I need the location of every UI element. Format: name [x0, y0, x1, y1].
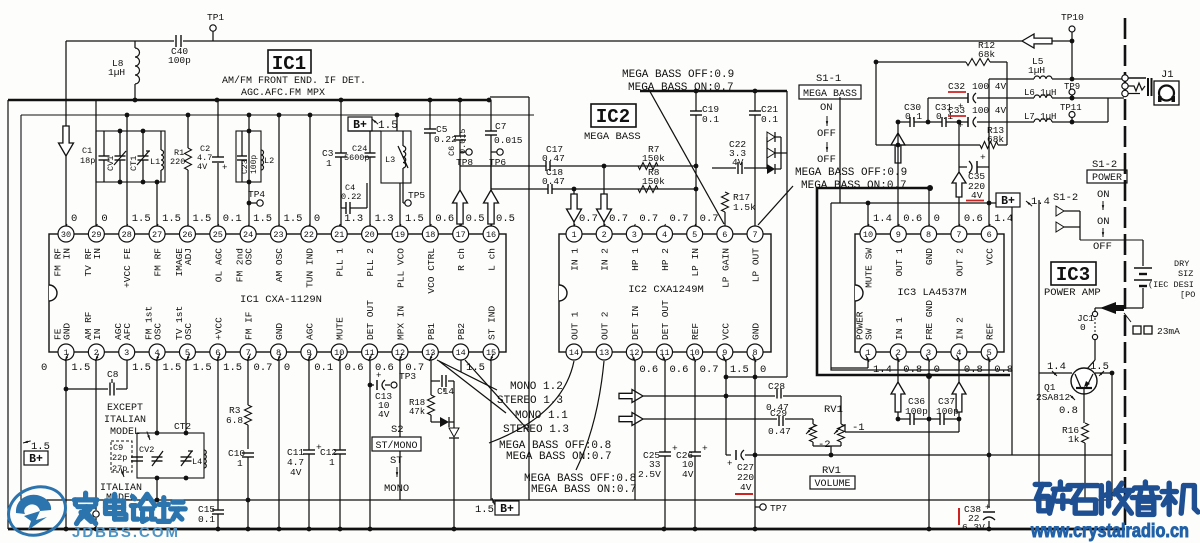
svg-text:IN 1: IN 1 — [894, 317, 905, 340]
svg-text:5: 5 — [692, 230, 697, 240]
svg-text:1.5: 1.5 — [132, 213, 151, 225]
svg-text:0: 0 — [41, 362, 47, 374]
svg-text:30: 30 — [61, 230, 71, 240]
svg-text:23: 23 — [273, 230, 283, 240]
tuned circuit box L3 — [367, 131, 411, 183]
svg-text:28: 28 — [122, 230, 132, 240]
label MEGA BASS OFF 0.8 (first) — [499, 440, 612, 463]
svg-text:AFC: AFC — [122, 323, 133, 340]
svg-text:MUTE: MUTE — [335, 317, 346, 340]
svg-text:25: 25 — [213, 230, 223, 240]
svg-text:6.3V: 6.3V — [962, 522, 985, 533]
svg-text:GND: GND — [751, 323, 762, 340]
wire IC3 pin10 MUTE SW up — [867, 203, 869, 226]
svg-text:TUN IND: TUN IND — [304, 248, 315, 288]
svg-text:B+: B+ — [1001, 195, 1015, 208]
svg-text:68k: 68k — [978, 49, 995, 60]
svg-text:0.8: 0.8 — [903, 364, 922, 376]
wire IC1 pin14 stub — [460, 360, 462, 372]
svg-text:0.47: 0.47 — [542, 176, 565, 187]
wire IC1 pin23 drop — [278, 115, 280, 226]
wire Q1 base feed down — [1038, 373, 1040, 500]
label MONO 1.2 STEREO 1.3 — [497, 381, 563, 407]
svg-text:0: 0 — [934, 364, 940, 376]
svg-text:0.7: 0.7 — [670, 213, 689, 225]
capacitor C35 220 4V — [959, 152, 989, 201]
svg-text:ST IND: ST IND — [487, 305, 498, 340]
svg-text:14: 14 — [456, 348, 466, 358]
svg-text:4V: 4V — [682, 469, 694, 480]
svg-text:20: 20 — [364, 230, 374, 240]
wire IC3 pin1 POWER SW tie — [831, 360, 868, 368]
svg-text:1.5: 1.5 — [284, 213, 303, 225]
svg-text:OL AGC: OL AGC — [213, 248, 224, 283]
capacitor C8 — [66, 360, 127, 396]
svg-text:GND: GND — [62, 323, 73, 340]
svg-text:R ch: R ch — [456, 248, 467, 271]
svg-text:150k: 150k — [642, 176, 665, 187]
svg-text:0: 0 — [101, 213, 107, 225]
svg-text:9: 9 — [896, 230, 901, 240]
svg-text:OFF: OFF — [817, 154, 836, 166]
svg-text:0.1: 0.1 — [314, 362, 333, 374]
svg-text:JDBBS.COM: JDBBS.COM — [72, 524, 180, 541]
resistor R18 47k — [409, 381, 435, 422]
wire IC1 pin12 down — [399, 360, 401, 500]
capacitor C38 22 6.3V — [959, 455, 995, 533]
svg-text:GND: GND — [924, 248, 935, 265]
test point TP9 — [1064, 82, 1080, 100]
svg-text:FM IF: FM IF — [244, 311, 255, 340]
svg-text:MODEL: MODEL — [110, 427, 140, 438]
svg-text:C23: C23 — [241, 159, 250, 174]
jack J1 contacts — [1122, 75, 1128, 97]
op-amp IC3 LA4537M body with pins — [855, 226, 1005, 360]
capacitor C25 33 2.5V — [638, 360, 678, 529]
svg-text:6.8: 6.8 — [226, 415, 243, 426]
label RV1 VOLUME box — [810, 465, 855, 490]
capacitor C18 0.47 — [542, 167, 565, 194]
capacitor C12 1 — [320, 360, 346, 529]
wire emitter to volume line — [1096, 371, 1114, 500]
svg-text:+: + — [702, 443, 708, 454]
svg-text:CT2: CT2 — [174, 421, 191, 432]
label 1.5 with B+ box left — [23, 441, 50, 466]
wire volume output y=455 — [755, 453, 1112, 458]
wire IC1 pin29 drop — [95, 100, 97, 226]
svg-text:1.5: 1.5 — [405, 213, 424, 225]
svg-text:1.4: 1.4 — [873, 364, 892, 376]
svg-text:0.7: 0.7 — [254, 362, 273, 374]
svg-text:MONO 1.1: MONO 1.1 — [515, 410, 568, 422]
jack J1 headphone — [1128, 69, 1179, 105]
svg-text:SW: SW — [864, 328, 875, 340]
capacitor C27 220 4V — [726, 377, 755, 494]
svg-text:TP3: TP3 — [399, 371, 416, 382]
capacitor C23 100p label — [241, 155, 259, 174]
watermark left url JDBBS.COM — [72, 524, 180, 541]
trimmer CT1 label — [129, 156, 139, 171]
wire IC1 pin17 drop — [459, 100, 461, 166]
wire IC1 pin15 down — [491, 360, 495, 505]
svg-text:0: 0 — [314, 213, 320, 225]
svg-text:6: 6 — [722, 230, 727, 240]
capacitor C31 0.1 — [935, 102, 953, 127]
switch S2 ST/MONO — [372, 424, 421, 495]
svg-text:16: 16 — [486, 230, 496, 240]
svg-text:13: 13 — [599, 348, 609, 358]
wire thick ground path IC3 — [817, 188, 1010, 379]
svg-text:REF: REF — [690, 323, 701, 340]
svg-text:7: 7 — [752, 230, 757, 240]
voltage labels above IC3 pins — [866, 213, 1014, 231]
wire IC2 pin5 vertical with C19 — [694, 89, 699, 226]
watermark right url crystalradio — [1030, 521, 1189, 542]
svg-text:+: + — [222, 163, 227, 173]
svg-text:24: 24 — [243, 230, 253, 240]
svg-text:VOLUME: VOLUME — [814, 479, 850, 490]
svg-text:0.8: 0.8 — [994, 364, 1013, 376]
label EXCEPT ITALIAN MODEL — [104, 403, 150, 440]
wire IC1 pin8 down — [278, 360, 280, 529]
varicap CV1 label — [106, 156, 116, 171]
wire x=1108 join — [1107, 98, 1109, 122]
resistor R16 1k — [1062, 423, 1089, 500]
test point TP11 — [1060, 103, 1082, 122]
svg-text:RV1: RV1 — [822, 465, 841, 477]
wire y=377 tie — [724, 360, 755, 379]
capacitor C30 0.1 — [904, 102, 922, 127]
capacitor C13 10 4V — [368, 360, 393, 529]
test point TP6 — [489, 149, 506, 168]
svg-text:4: 4 — [662, 230, 667, 240]
wire C14 net down to diodes — [453, 381, 455, 417]
svg-text:TP5: TP5 — [408, 190, 425, 201]
transistor Q1 2SA812 — [1036, 361, 1109, 423]
svg-text:C6: C6 — [447, 146, 457, 156]
svg-text:MPX IN: MPX IN — [395, 306, 406, 340]
svg-text:1.5: 1.5 — [192, 213, 211, 225]
svg-text:C14: C14 — [437, 386, 454, 397]
wire IC1 pin27 drop — [156, 183, 158, 226]
svg-text:0.1: 0.1 — [761, 114, 778, 125]
svg-text:0.6: 0.6 — [964, 213, 983, 225]
svg-text:IC2 CXA1249M: IC2 CXA1249M — [628, 284, 704, 296]
label MEGA BASS OFF 0.9 top — [622, 69, 734, 94]
capacitor C11 4.7 4V — [287, 360, 322, 529]
svg-text:0.015: 0.015 — [494, 135, 523, 146]
svg-text:DET IN: DET IN — [630, 306, 641, 340]
svg-text:L1: L1 — [150, 157, 160, 167]
jumper JC1 — [1077, 308, 1143, 369]
op-amp IC1 CXA-1129N body with pins — [49, 226, 506, 360]
svg-text:FM RF: FM RF — [153, 248, 164, 277]
capacitor C40 100p — [168, 35, 191, 66]
svg-text:ST: ST — [390, 455, 403, 467]
svg-text:+: + — [376, 371, 381, 381]
svg-text:23mA: 23mA — [1157, 326, 1180, 337]
svg-text:+: + — [980, 152, 986, 163]
wire bottom thick ground border — [8, 527, 1125, 532]
svg-text:C28: C28 — [768, 381, 785, 392]
label MEGA BASS under IC2 — [584, 131, 641, 143]
wire IC1 pin26 drop — [187, 115, 189, 226]
svg-text:0: 0 — [934, 213, 940, 225]
test point TP7 — [755, 503, 787, 514]
svg-text:B+: B+ — [353, 119, 367, 132]
diagonal pointer IC1 pin13 to mono/stereo labels — [437, 360, 528, 430]
svg-text:17: 17 — [456, 230, 466, 240]
svg-text:26: 26 — [182, 230, 192, 240]
capacitor C4 0.22 — [341, 157, 367, 214]
svg-text:VCC: VCC — [720, 323, 731, 340]
svg-text:AM OSC: AM OSC — [274, 248, 285, 283]
svg-text:TP7: TP7 — [770, 503, 787, 514]
svg-text:TP10: TP10 — [1061, 12, 1084, 23]
svg-text:POWER: POWER — [1092, 173, 1122, 184]
svg-text:S1-2: S1-2 — [1053, 192, 1078, 204]
svg-text:27: 27 — [152, 230, 162, 240]
capacitor C33 100 4V — [948, 105, 1007, 131]
wire line y=396 to RV1 — [643, 394, 841, 424]
watermark left logo (JDBBS) — [2, 479, 73, 543]
capacitor C28 0.47 — [766, 381, 789, 413]
wire IC1 pin16 drop — [490, 100, 492, 189]
svg-text:0.7: 0.7 — [579, 213, 598, 225]
svg-text:PLL VCO: PLL VCO — [395, 248, 406, 288]
svg-text:AGC.AFC.FM MPX: AGC.AFC.FM MPX — [241, 88, 325, 99]
test point TP5 — [403, 183, 425, 206]
svg-text:IN: IN — [92, 248, 103, 259]
svg-text:11: 11 — [659, 348, 669, 358]
signal arrow down into IC2 pin1 — [567, 189, 582, 226]
svg-text:1.5: 1.5 — [132, 362, 151, 374]
label box B+ right — [996, 193, 1050, 208]
wire OUT1 audio line y=122 — [896, 120, 1108, 125]
svg-text:C9: C9 — [113, 443, 123, 453]
svg-text:REF: REF — [985, 323, 996, 340]
svg-text:8: 8 — [926, 230, 931, 240]
svg-text:OUT 2: OUT 2 — [954, 248, 965, 277]
svg-text:1.5: 1.5 — [253, 213, 272, 225]
label MEGA BASS OFF 0.8 (second) — [524, 473, 637, 496]
svg-text:C1: C1 — [82, 146, 92, 156]
wire IC3 pin7 OUT2 up — [958, 122, 960, 226]
svg-text:CV1: CV1 — [106, 156, 116, 171]
enclosure box around IC3 — [831, 201, 1012, 455]
wire IC3 pin2 down with arrow — [891, 360, 905, 421]
svg-text:7: 7 — [956, 230, 961, 240]
wire IC1 pin25 drop — [217, 100, 219, 226]
wire C24/L3 top join — [348, 115, 397, 131]
svg-text:CV2: CV2 — [139, 445, 154, 455]
svg-text:HP 2: HP 2 — [660, 248, 671, 271]
capacitor C10 1 — [228, 448, 254, 529]
svg-text:GND: GND — [274, 323, 285, 340]
svg-text:IC3: IC3 — [1056, 264, 1090, 286]
resistor R1 220 — [170, 148, 192, 170]
svg-text:0.7: 0.7 — [700, 213, 719, 225]
wire OUT2 audio line y=98 — [928, 96, 1124, 122]
inductor L6 1uH — [1024, 88, 1056, 98]
wire thick B+ rail y=91 — [640, 89, 787, 94]
wire second bus y=115 — [21, 113, 534, 500]
inductor L2 label — [264, 156, 274, 166]
svg-text:21: 21 — [334, 230, 344, 240]
svg-text:C7: C7 — [495, 121, 506, 132]
wire IC1 pin30 FM RF IN drop — [65, 41, 67, 226]
svg-text:29: 29 — [91, 230, 101, 240]
wire IC2 pin8 ground down — [753, 360, 758, 529]
svg-text:47k: 47k — [409, 407, 425, 417]
svg-text:DRY: DRY — [1174, 259, 1189, 269]
svg-text:0: 0 — [1080, 322, 1086, 333]
svg-text:12: 12 — [629, 348, 639, 358]
label 1.5 B+ box bottom — [475, 501, 519, 516]
svg-text:RV1: RV1 — [824, 404, 843, 416]
resistor R13 68k — [876, 125, 1007, 149]
wire IC1 pin2 down with test point TP2 — [93, 360, 99, 529]
resistor R7 150k — [638, 144, 665, 170]
svg-text:IN 2: IN 2 — [600, 248, 611, 271]
svg-text:ST/MONO: ST/MONO — [375, 440, 417, 452]
label box IC3 — [1051, 262, 1096, 286]
svg-text:0.6: 0.6 — [639, 364, 658, 376]
signal arrow up at IC1 pin16 — [484, 160, 499, 226]
svg-text:0: 0 — [760, 364, 766, 376]
resistor R17 1.5k — [722, 192, 757, 226]
svg-text:1.5: 1.5 — [162, 213, 181, 225]
svg-text:OUT 2: OUT 2 — [600, 311, 611, 340]
label IC1 function — [222, 75, 366, 99]
wire IC3 pin4 down with arrow — [952, 360, 966, 421]
svg-text:SIZ: SIZ — [1178, 269, 1193, 279]
capacitor C6 0.015 — [447, 128, 468, 156]
svg-text:STEREO 1.3: STEREO 1.3 — [497, 395, 563, 407]
capacitor C24 5600p — [344, 131, 376, 183]
diode D (to S2) — [431, 417, 459, 438]
op-amp IC2 CXA1249M body with pins — [559, 226, 771, 360]
wire L-ch line y=166 — [460, 164, 698, 169]
svg-text:MEGA BASS: MEGA BASS — [803, 89, 857, 100]
svg-text:4V: 4V — [197, 162, 208, 172]
svg-text:0.6: 0.6 — [435, 213, 454, 225]
svg-text:22: 22 — [304, 230, 314, 240]
capacitor C21 0.1 — [749, 91, 778, 226]
resistor R8 150k — [638, 167, 665, 193]
wire IC1 pin20 drop — [369, 183, 371, 226]
svg-text:0.8: 0.8 — [1059, 405, 1078, 417]
capacitor C29 0.47 — [768, 408, 791, 437]
watermark left text jiadian luntan — [74, 493, 185, 523]
svg-text:L4: L4 — [192, 457, 202, 467]
svg-text:MONO: MONO — [384, 483, 409, 495]
svg-text:IC1 CXA-1129N: IC1 CXA-1129N — [240, 294, 322, 306]
svg-text:B+: B+ — [29, 453, 43, 466]
capacitor C17 0.47 — [542, 144, 565, 171]
wire section divider x=529 — [490, 97, 529, 500]
voltage labels above IC1 top pins — [64, 213, 515, 231]
diagonal from label to IC2 pin7 — [758, 186, 793, 225]
wire bottom distribution y=500 — [21, 498, 990, 503]
tuned circuit box (C23 L2) — [236, 129, 264, 185]
label POWER AMP — [1044, 287, 1101, 299]
svg-text:1.5k: 1.5k — [733, 202, 756, 213]
svg-text:1.5: 1.5 — [1090, 361, 1109, 373]
svg-text:18: 18 — [425, 230, 435, 240]
svg-text:0.1: 0.1 — [702, 114, 719, 125]
svg-text:100p: 100p — [250, 155, 259, 174]
svg-text:S2: S2 — [391, 424, 404, 436]
svg-text:C32: C32 — [948, 81, 965, 92]
svg-text:OFF: OFF — [817, 128, 836, 140]
svg-text:4V: 4V — [378, 409, 390, 420]
svg-text:+: + — [727, 459, 732, 469]
svg-text:MEGA BASS OFF:0.9: MEGA BASS OFF:0.9 — [622, 69, 734, 81]
wire IC2 pin12 down — [634, 360, 636, 500]
svg-text:OFF: OFF — [1093, 241, 1112, 253]
resistor R3 6.8 — [226, 360, 252, 449]
svg-text:27p: 27p — [112, 464, 127, 474]
svg-text:PLL 2: PLL 2 — [365, 248, 376, 277]
svg-text:ITALIAN: ITALIAN — [104, 415, 146, 426]
wire IC1 pin21 drop — [340, 100, 342, 226]
svg-text:FRE GND: FRE GND — [924, 300, 935, 340]
svg-text:IN: IN — [62, 248, 73, 259]
signal arrow down into IC2 pin2 — [597, 166, 612, 226]
svg-text:ON: ON — [1097, 189, 1110, 201]
wire line y=419 to RV1 wiper — [643, 418, 813, 420]
svg-text:4V: 4V — [290, 467, 302, 478]
wire B+ 1.4 feed to Q1 base — [1038, 200, 1040, 373]
inductor L8 1uH — [108, 41, 140, 100]
svg-text:14: 14 — [569, 348, 579, 358]
svg-text:DET OUT: DET OUT — [660, 300, 671, 340]
voltage labels below IC1 bottom pins — [41, 354, 493, 374]
label box IC1 — [268, 50, 311, 75]
svg-text:5600p: 5600p — [344, 153, 370, 163]
watermark right text kuangshi shouyinji — [1035, 482, 1198, 514]
svg-text:DET OUT: DET OUT — [365, 300, 376, 340]
svg-text:0.6: 0.6 — [345, 362, 364, 374]
svg-text:100p: 100p — [168, 55, 191, 66]
wire RV1 lower tie — [845, 419, 959, 432]
svg-text:0.7: 0.7 — [609, 213, 628, 225]
svg-text:1k: 1k — [1068, 434, 1080, 445]
svg-text:+VCC: +VCC — [213, 317, 224, 340]
svg-text:100p: 100p — [905, 406, 928, 417]
wire IC1 pin28 drop — [126, 115, 128, 226]
label S1-2 POWER switch — [1087, 159, 1127, 253]
wire IC1 pin6 down — [217, 360, 219, 500]
capacitor C7 0.015 — [485, 121, 523, 146]
capacitor C14 — [431, 360, 454, 397]
svg-text:LP IN: LP IN — [690, 248, 701, 277]
label box IC2 — [591, 104, 636, 128]
svg-text:C29: C29 — [770, 408, 787, 419]
svg-text:3: 3 — [124, 348, 129, 358]
svg-text:ADJ: ADJ — [183, 248, 194, 265]
svg-text:6: 6 — [987, 230, 992, 240]
wire IC1 pin1 down — [64, 360, 69, 529]
svg-text:STEREO 1.3: STEREO 1.3 — [503, 424, 569, 436]
svg-text:PB2: PB2 — [456, 323, 467, 340]
svg-text:IC2: IC2 — [596, 106, 630, 128]
resistor R12 68k — [874, 40, 1007, 66]
svg-text:1.4: 1.4 — [1031, 196, 1050, 208]
svg-text:IN 2: IN 2 — [954, 317, 965, 340]
svg-text:1.5: 1.5 — [223, 362, 242, 374]
